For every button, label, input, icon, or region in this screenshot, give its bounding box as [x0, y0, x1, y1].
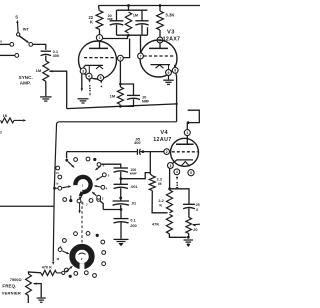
- potentiometer 1M sync amp: [43, 61, 49, 82]
- wire to left edge EXT: [0, 43, 10, 45]
- wire B+ corner to R2: [98, 6, 101, 11]
- cathode of V4: [172, 160, 193, 164]
- svg-text:7500Ω: 7500Ω: [10, 277, 22, 282]
- wire box right stub: [147, 27, 149, 35]
- junction at cathode wire: [175, 103, 177, 105]
- wire to C 0.1: [120, 210, 122, 219]
- svg-text:MMF: MMF: [142, 99, 149, 103]
- svg-text:400: 400: [134, 140, 141, 145]
- svg-text:7: 7: [140, 54, 142, 58]
- tube V3 left triode envelope: [79, 41, 117, 79]
- ground V3 right cathode: [163, 79, 174, 81]
- svg-text:47K: 47K: [152, 222, 159, 227]
- contact: [58, 248, 62, 252]
- svg-text:MMF: MMF: [107, 18, 113, 21]
- wire box left upper: [116, 10, 118, 20]
- contact filled: [96, 234, 99, 237]
- wire plate lead: [159, 43, 161, 49]
- svg-text:INT: INT: [23, 27, 30, 32]
- pin 7 V3 grid: [138, 53, 144, 59]
- ground: [184, 239, 194, 241]
- potentiometer 20K: [186, 217, 192, 233]
- contact: [63, 239, 67, 243]
- junction at V4 plate wire: [187, 121, 190, 124]
- wire cathode follower output loop: [53, 122, 176, 261]
- wire B+ rail: [99, 5, 201, 7]
- resistor 1K: [1, 118, 15, 123]
- wire long line to left edge: [0, 205, 54, 207]
- heater dots below pin 4: [88, 80, 90, 83]
- wire: [120, 188, 122, 198]
- svg-text:1b: 1b: [55, 182, 58, 186]
- junction below R3: [119, 105, 122, 108]
- junction rotor feed: [65, 159, 68, 162]
- wire to C .01: [120, 198, 122, 201]
- tube V4 envelope: [171, 138, 199, 166]
- plate of V4: [176, 143, 194, 145]
- arrow output to sweep: [14, 119, 23, 121]
- ground: [114, 238, 129, 240]
- capacitor .01: [113, 200, 129, 202]
- wire node to V4 grid bus: [121, 173, 150, 179]
- wire to pin1 V4: [186, 123, 188, 130]
- wire B+ to 3.3K: [159, 6, 161, 12]
- contact filled: [69, 275, 72, 278]
- contact: [102, 251, 106, 255]
- wire contact to C 100MMF: [101, 164, 121, 168]
- cathode of V3 left: [83, 65, 103, 67]
- svg-text:V3: V3: [167, 30, 175, 36]
- svg-text:AMP.: AMP.: [20, 81, 31, 86]
- pin 1 V4 plate: [184, 130, 190, 136]
- svg-text:200: 200: [130, 223, 137, 228]
- contact left: [56, 166, 60, 170]
- switch SW1 arm: [19, 36, 26, 41]
- capacitor 20 MMF left branch: [110, 20, 124, 22]
- pin 1 V3 plate: [96, 35, 102, 41]
- wire to C .001: [120, 179, 122, 184]
- capacitor 100 MMF: [114, 167, 128, 169]
- wire pot to ground: [188, 234, 190, 238]
- svg-text:20: 20: [193, 227, 197, 232]
- grid of V4: [172, 151, 198, 153]
- switch contact lower: [15, 54, 19, 58]
- wire bus down to R 2.2M: [150, 152, 152, 176]
- wire cathode node to cap: [170, 189, 189, 204]
- grid of V3 right: [144, 55, 176, 57]
- resistor 47K: [166, 214, 172, 233]
- contact: [102, 262, 106, 266]
- svg-text:3.3K: 3.3K: [165, 12, 175, 17]
- wire pin2 up to box: [123, 39, 129, 58]
- svg-text:2: 2: [166, 150, 168, 154]
- wire switch pivot stem: [17, 23, 20, 33]
- svg-text:5: 5: [100, 76, 102, 80]
- wire junction to contact: [56, 187, 58, 189]
- wire box bottom rail: [117, 34, 148, 36]
- contact: [86, 232, 90, 236]
- wire wiper to edge: [193, 223, 200, 226]
- resistor 2.2M: [149, 176, 155, 191]
- arm: [94, 194, 96, 196]
- svg-text:1K: 1K: [3, 114, 8, 118]
- junction on B+: [127, 4, 130, 7]
- wiper arrow of 1M pot: [49, 70, 52, 72]
- arm to rotor: [62, 251, 66, 253]
- svg-text:1M: 1M: [36, 68, 42, 73]
- resistor 3.3K: [157, 11, 164, 30]
- arm from contact 6: [97, 166, 100, 168]
- wire 47K to ground node: [169, 234, 186, 238]
- wire: [57, 272, 62, 274]
- capacitor .05 400: [136, 149, 138, 155]
- pin 2 V4 grid: [164, 149, 170, 155]
- contact 4: [101, 185, 105, 189]
- wire wiper down: [34, 284, 42, 298]
- svg-text:K: K: [90, 19, 93, 24]
- arm: [98, 176, 102, 179]
- switch contact: [97, 198, 101, 202]
- junction: [120, 208, 123, 211]
- contact 5: [102, 173, 106, 177]
- tube V3 right triode envelope: [140, 40, 177, 77]
- junction: [120, 177, 123, 180]
- wire R1 to ground: [45, 81, 47, 96]
- wire grid bus of V4: [67, 151, 138, 153]
- svg-text:2: 2: [0, 130, 2, 134]
- junction ground node: [187, 236, 190, 239]
- svg-text:M: M: [158, 181, 161, 186]
- wire C1 to R1: [45, 56, 47, 61]
- junction: [119, 197, 122, 200]
- contact 470K: [62, 271, 65, 274]
- wire bus down to rotor feed: [66, 152, 68, 159]
- svg-text:SYNC.: SYNC.: [19, 75, 33, 80]
- contact: [74, 272, 78, 276]
- resistor 1M in box: [125, 12, 131, 33]
- cathode of V3 right: [151, 64, 171, 66]
- junction box bottom: [127, 34, 130, 37]
- wire pin1 to box bottom: [103, 35, 128, 38]
- svg-text:4: 4: [176, 170, 178, 174]
- wire grid node line: [67, 104, 177, 109]
- heater arrow below pin 4 V4: [176, 177, 178, 180]
- wire down: [79, 203, 81, 211]
- switch contact 6: [97, 163, 101, 167]
- pin 8 cathode: [172, 67, 178, 73]
- wire B+ stub to box: [128, 6, 130, 11]
- svg-text:2: 2: [119, 56, 121, 60]
- wire junction left: [103, 209, 121, 211]
- arrow to range switch rotor: [52, 262, 54, 265]
- svg-text:400: 400: [53, 53, 60, 58]
- wire to ground: [120, 222, 122, 239]
- plate of V3 left: [89, 47, 108, 49]
- contact bottom: [63, 198, 67, 202]
- capacitor 0.1 200: [114, 218, 129, 220]
- contact: [74, 158, 78, 162]
- wire pot top: [29, 272, 42, 274]
- capacitor right branch: [135, 20, 148, 22]
- svg-text:S: S: [15, 15, 18, 20]
- contact: [74, 232, 78, 236]
- contact: [86, 157, 90, 161]
- svg-text:MMF: MMF: [130, 171, 137, 175]
- svg-text:5: 5: [190, 171, 192, 175]
- wire pot to edge: [27, 296, 29, 304]
- wire R2 to pin1: [99, 29, 101, 34]
- plate of V3 right: [149, 47, 168, 49]
- resistor 22K: [96, 11, 103, 30]
- svg-text:0.1: 0.1: [130, 218, 136, 223]
- junction cathode node: [168, 187, 171, 190]
- wire: [120, 172, 122, 179]
- contact: [93, 274, 97, 278]
- contact 2: [77, 199, 81, 203]
- svg-text:0: 0: [196, 208, 198, 212]
- svg-text:4: 4: [88, 74, 90, 78]
- wire 2.2M to junction: [152, 191, 168, 213]
- wire 3.3K to pin6: [159, 30, 161, 37]
- wire box left lower: [116, 25, 118, 36]
- wire box top rail: [117, 9, 148, 11]
- wiper arrow 20K pot: [192, 224, 195, 226]
- resistor 1M grid leak: [117, 87, 123, 105]
- wire pot wiper down: [49, 71, 66, 108]
- ground: [40, 96, 52, 98]
- arm to rotor 2: [66, 268, 70, 272]
- svg-text:8: 8: [174, 69, 176, 73]
- svg-text:1M: 1M: [110, 93, 116, 98]
- svg-text:FREQ.: FREQ.: [2, 284, 16, 289]
- contact: [65, 268, 69, 272]
- contact: [101, 240, 105, 244]
- wire cap to pot: [188, 208, 190, 217]
- rotary switch S2 rotor disc: [72, 247, 91, 266]
- selector arm to rotor: [62, 187, 68, 188]
- stub: [70, 195, 72, 199]
- rotary switch S1 rotor: [75, 177, 90, 192]
- pin 3 V4 cathode: [168, 163, 174, 169]
- wire INT contact to C1: [33, 44, 46, 50]
- potentiometer 7500 freq vernier: [26, 274, 32, 296]
- resistor 470K: [41, 270, 57, 275]
- wire plate lead: [99, 41, 101, 49]
- wire pin3 down: [169, 168, 171, 188]
- svg-text:1: 1: [186, 131, 188, 135]
- contact filled: [69, 199, 72, 202]
- wire pin8 down: [175, 73, 178, 122]
- wire: [120, 205, 122, 210]
- wire up to contact: [100, 201, 103, 210]
- contact filled: [93, 158, 96, 161]
- arrow up to S: [16, 20, 18, 23]
- capacitor 0.1 400: [41, 50, 51, 52]
- pin 6 V3 plate: [157, 37, 163, 43]
- resistor 2.2K: [167, 190, 173, 213]
- wire loop to V4 plate: [188, 110, 200, 122]
- wire to left edge: [0, 54, 15, 56]
- switch contact 1: [58, 186, 62, 190]
- svg-text:9: 9: [168, 71, 170, 75]
- wire plate lead V4: [186, 136, 188, 145]
- svg-text:3: 3: [169, 164, 171, 168]
- ground: [37, 297, 46, 299]
- capacitor .001: [114, 183, 128, 185]
- pin 5 heater: [98, 75, 104, 81]
- junction: [142, 150, 145, 153]
- pin 2 V3 grid: [118, 55, 124, 61]
- wire pin9 to ground: [168, 75, 170, 79]
- svg-text:1M: 1M: [133, 14, 138, 18]
- pin 4 heater: [86, 73, 92, 79]
- svg-text:VERNIER: VERNIER: [2, 291, 21, 296]
- svg-text:470 K: 470 K: [42, 265, 53, 270]
- svg-text:.01: .01: [131, 202, 136, 206]
- svg-text:V4: V4: [160, 130, 168, 136]
- svg-text:25: 25: [196, 203, 200, 207]
- contact left: [58, 175, 62, 179]
- contact: [89, 199, 93, 203]
- wire box to pin7: [140, 35, 142, 53]
- switch SW1 pivot contact: [17, 33, 20, 36]
- svg-text:3: 3: [82, 69, 84, 73]
- wire pin2 down to R3: [119, 61, 121, 87]
- contact: [84, 271, 88, 275]
- ground V3 cathode: [78, 98, 89, 100]
- switch contact left: [10, 43, 14, 47]
- svg-text:1: 1: [99, 36, 101, 40]
- svg-text:.001: .001: [130, 185, 137, 189]
- switch contact INT: [29, 43, 33, 47]
- svg-text:K: K: [159, 202, 162, 207]
- wire right branch lower: [141, 25, 143, 36]
- pin 3 V3 cathode: [80, 68, 86, 74]
- arm: [97, 185, 101, 188]
- svg-text:12AU7: 12AU7: [153, 137, 172, 143]
- contact 3: [97, 195, 101, 199]
- wiper arrow freq vernier: [33, 282, 36, 284]
- pin 9: [166, 70, 172, 76]
- capacitor 20MMF across R3: [120, 84, 133, 95]
- pin 4 heater: [174, 169, 180, 175]
- wire right branch upper: [141, 10, 143, 20]
- capacitor .25: [183, 203, 195, 205]
- heater arrow below pin 5: [100, 80, 102, 83]
- ganged shaft dashed line: [81, 202, 83, 244]
- junction on B+ at 3.3K: [159, 4, 162, 7]
- grid of V3 left: [84, 57, 117, 59]
- wire cap to pin2 V4: [140, 151, 164, 153]
- junction to switch contact: [53, 187, 56, 190]
- wire pin3 to ground: [81, 74, 83, 89]
- pin 5 heater: [188, 170, 194, 176]
- arm to timing rotor: [68, 162, 72, 166]
